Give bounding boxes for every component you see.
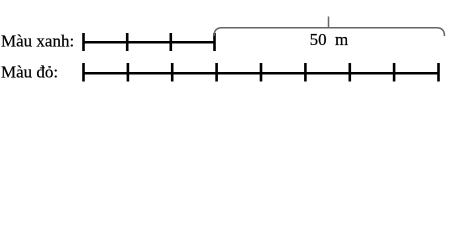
red bar tick 8 [393, 63, 396, 82]
red bar tick 2 [127, 63, 130, 82]
svg-text:Màu đỏ:: Màu đỏ: [1, 63, 58, 82]
blue bar tick 3 [170, 33, 173, 51]
red bar tick 3 [171, 63, 174, 82]
red bar tick 5 [260, 63, 263, 82]
blue bar tick 4 (end) [213, 33, 216, 51]
red bar tick 9 (end) [437, 63, 440, 82]
svg-text:m: m [335, 30, 348, 49]
svg-text:Màu xanh:: Màu xanh: [1, 32, 74, 51]
red bar tick 6 [304, 63, 307, 82]
red bar line (8 units) [84, 72, 439, 75]
red bar tick 7 [348, 63, 351, 82]
red bar tick 4 [215, 63, 218, 82]
blue bar tick 1 [82, 33, 85, 51]
svg-text:50: 50 [310, 30, 327, 49]
brace over difference (5 units) [214, 17, 445, 37]
red bar tick 1 [82, 63, 85, 82]
blue bar tick 2 [126, 33, 129, 51]
blue bar line (3 units) [84, 41, 216, 44]
